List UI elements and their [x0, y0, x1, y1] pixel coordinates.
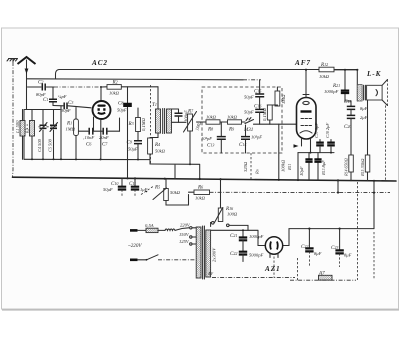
svg-text:1MΩ: 1MΩ — [281, 94, 286, 104]
inductor L2 — [25, 110, 35, 160]
svg-text:150V: 150V — [179, 232, 190, 237]
svg-text:100Ω: 100Ω — [227, 212, 238, 217]
capacitor C22b — [230, 240, 263, 261]
tube AF7 label — [294, 59, 311, 67]
capacitor C13 — [201, 122, 226, 153]
svg-text:50pF: 50pF — [244, 95, 254, 100]
wire rectifier output — [283, 228, 374, 246]
capacitor C19 — [344, 99, 368, 111]
svg-text:AZ1: AZ1 — [264, 265, 280, 273]
wire B+ top line1 — [56, 70, 358, 80]
loudspeaker L-K label — [366, 70, 382, 78]
capacitor C10 — [103, 178, 126, 197]
wire antenna line2 — [27, 79, 262, 94]
inductor L1 — [15, 110, 25, 160]
mains terminal upper — [130, 229, 146, 232]
svg-text:AC2: AC2 — [91, 59, 108, 67]
svg-text:125V: 125V — [179, 239, 190, 244]
wire heater pot riser — [220, 179, 222, 208]
capacitor C18 — [325, 123, 335, 154]
capacitor C22 — [301, 229, 322, 267]
potentiometer R16 — [215, 206, 238, 223]
potentiometer R5 — [153, 179, 181, 201]
transformer T1 — [152, 87, 172, 134]
wire speaker dashed return — [385, 106, 387, 181]
resistor R4 — [148, 138, 166, 164]
svg-text:10kΩ: 10kΩ — [206, 115, 217, 120]
svg-text:R11: R11 — [287, 164, 292, 171]
capacitor C23 — [331, 229, 352, 267]
wire lower return — [150, 163, 200, 179]
resistor R11a — [262, 105, 277, 124]
svg-text:320Ω: 320Ω — [243, 161, 248, 172]
svg-text:50μF: 50μF — [128, 147, 138, 152]
svg-text:50kΩ: 50kΩ — [155, 149, 166, 154]
svg-text:R15 35kΩ: R15 35kΩ — [360, 158, 365, 177]
resistor R1 — [66, 108, 79, 160]
switch wave contact — [141, 187, 153, 195]
capacitor C4 variable — [37, 110, 47, 160]
dashed enclosure pickup unit — [202, 87, 282, 153]
antenna — [18, 57, 36, 110]
capacitor C3 — [53, 100, 91, 113]
potentiometer R7 — [184, 109, 203, 165]
resistor R3 — [128, 108, 147, 140]
svg-text:50pF: 50pF — [117, 108, 127, 113]
capacitor C17 — [314, 123, 324, 153]
svg-text:10kΩ: 10kΩ — [319, 74, 330, 79]
wire T1 to pot — [150, 122, 186, 137]
output transformer — [357, 70, 362, 101]
wire filter dashed column — [358, 182, 375, 280]
svg-text:8μF: 8μF — [360, 106, 368, 111]
tube AF7 — [297, 94, 317, 139]
resistor R11 — [281, 159, 293, 172]
switch mains — [146, 255, 196, 261]
mains terminal lower — [130, 258, 147, 261]
wire grid feed to AF7 — [254, 123, 297, 125]
tube AZ1 label — [264, 265, 280, 273]
svg-text:10³pF: 10³pF — [201, 136, 212, 141]
svg-text:10kΩ: 10kΩ — [109, 91, 120, 96]
capacitor C21 coupling — [324, 70, 351, 101]
wire cathode rail to bus — [127, 159, 129, 179]
fuse 0,5A — [145, 223, 165, 233]
lamp A7 — [318, 271, 332, 281]
svg-text:8μF: 8μF — [314, 251, 322, 256]
svg-text:2μF: 2μF — [360, 115, 368, 120]
svg-text:AF7: AF7 — [294, 59, 311, 67]
svg-text:M31: M31 — [243, 127, 253, 133]
svg-text:Rn: Rn — [255, 169, 260, 175]
resistor R12 — [319, 62, 334, 79]
wire 4V filament tap — [208, 257, 295, 278]
svg-text:2x300V: 2x300V — [212, 247, 217, 262]
svg-text:R14 650Ω: R14 650Ω — [344, 158, 349, 177]
switch heater — [212, 222, 249, 231]
capacitor C8 — [117, 87, 132, 159]
loudspeaker — [364, 80, 388, 106]
svg-text:1000pF: 1000pF — [324, 89, 338, 94]
wire bottom dash-dot rail — [290, 258, 356, 280]
junction bus dots — [126, 177, 375, 182]
capacitor cathode bypass b — [314, 153, 326, 181]
capacitor C14 — [239, 125, 262, 153]
svg-text:10kΩ: 10kΩ — [227, 115, 238, 120]
svg-text:C17 3μF: C17 3μF — [314, 123, 319, 138]
ground — [7, 59, 18, 63]
capacitor C5 variable — [48, 110, 58, 160]
switch M31 — [242, 118, 254, 134]
capacitor C15 — [244, 89, 264, 110]
svg-text:5000pF: 5000pF — [249, 253, 263, 258]
wire R5 return — [166, 195, 189, 206]
inductor mains filter — [165, 228, 189, 231]
wire AF7 anode top — [305, 69, 307, 94]
power transformer — [196, 226, 216, 279]
svg-text:30pF: 30pF — [61, 108, 71, 113]
resistor R6 — [189, 185, 210, 201]
wire AF7 cathode bottom — [294, 139, 335, 181]
capacitor C21b — [230, 230, 263, 240]
svg-text:220V: 220V — [180, 223, 191, 228]
svg-text:10kΩ: 10kΩ — [195, 196, 206, 201]
svg-text:8μF: 8μF — [344, 253, 352, 258]
svg-text:L-K: L-K — [366, 70, 382, 78]
capacitor C6 — [83, 128, 94, 148]
capacitor C16 — [244, 104, 264, 125]
svg-text:~220V: ~220V — [128, 243, 142, 249]
wire section bottom rail — [24, 106, 150, 161]
mains label — [128, 243, 142, 249]
svg-text:50kΩ: 50kΩ — [170, 190, 181, 195]
wire ground lead — [12, 62, 15, 177]
svg-text:50pF: 50pF — [244, 110, 254, 115]
wire HT secondary top — [211, 223, 243, 231]
resistor R8 — [197, 115, 221, 133]
svg-text:50μF: 50μF — [103, 187, 113, 192]
svg-text:R13 8μF: R13 8μF — [321, 160, 326, 176]
capacitor C20 — [344, 109, 368, 130]
resistor R2 — [101, 79, 158, 95]
resistor R15 — [360, 100, 370, 181]
wire grid row — [79, 118, 120, 131]
tube AZ1 — [265, 237, 282, 258]
svg-text:C5 500: C5 500 — [48, 138, 53, 152]
wire AC2 cathode lead — [94, 117, 101, 159]
svg-text:10³pF: 10³pF — [251, 135, 262, 140]
capacitor C11 — [129, 178, 148, 197]
wire B+ right segment — [334, 69, 358, 71]
wire screen dash line — [210, 180, 391, 193]
svg-text:10μF: 10μF — [299, 166, 304, 176]
resistor R13 column — [299, 153, 313, 181]
capacitor C10tank — [169, 109, 189, 122]
tube AC2 label — [91, 59, 108, 67]
resistor R14 — [344, 118, 354, 180]
svg-text:1MΩ: 1MΩ — [66, 127, 76, 132]
wire main ground bus — [13, 177, 397, 181]
wire gang dashed link — [39, 85, 151, 165]
capacitor C1 — [43, 87, 67, 106]
capacitor C2 — [28, 80, 103, 102]
svg-text:1000pF: 1000pF — [249, 234, 263, 239]
capacitor C7 — [99, 128, 109, 148]
wire LC top rail — [24, 110, 60, 160]
resistor R9 — [220, 115, 242, 133]
resistor R10 — [275, 87, 286, 106]
svg-text:¼pF: ¼pF — [58, 94, 67, 99]
wire bias column — [243, 153, 260, 180]
capacitor C9 — [127, 140, 143, 160]
svg-text:100kΩ: 100kΩ — [281, 159, 286, 172]
svg-text:C4 500: C4 500 — [37, 138, 42, 152]
wire AZ1 anode — [242, 229, 265, 245]
tube AC2 — [93, 101, 111, 119]
svg-text:C18 2μF: C18 2μF — [325, 123, 330, 138]
svg-text:L2: L2 — [25, 128, 30, 134]
wire grid leak column — [278, 124, 280, 180]
wire rectifier B+ riser — [373, 181, 375, 229]
svg-text:L1 500: L1 500 — [15, 120, 20, 134]
mains taps — [179, 223, 196, 246]
